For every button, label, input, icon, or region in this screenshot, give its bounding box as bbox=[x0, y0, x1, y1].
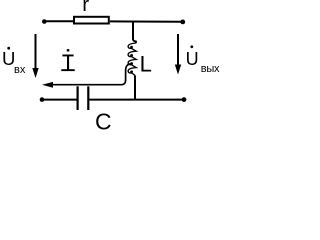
wire bottom-left segment bbox=[42, 99, 77, 101]
wire bottom-right segment bbox=[89, 99, 184, 101]
wire from top to inductor bbox=[133, 22, 136, 44]
svg-text:вых: вых bbox=[201, 63, 220, 75]
label I (current, serif style with dot) bbox=[62, 55, 73, 57]
node top-right bbox=[180, 20, 185, 25]
svg-text:вх: вх bbox=[14, 64, 26, 76]
arrow Uvyx (output voltage, downward) bbox=[177, 34, 179, 65]
arrow Uvx (input voltage, downward) bbox=[35, 34, 37, 69]
wire top-left segment bbox=[44, 20, 74, 22]
svg-text:U: U bbox=[186, 49, 199, 69]
wire top-right segment bbox=[110, 20, 183, 22]
svg-text:r: r bbox=[82, 0, 89, 16]
inductor L coil bbox=[128, 43, 136, 76]
svg-text:L: L bbox=[140, 52, 152, 77]
capacitor C bbox=[76, 86, 78, 110]
svg-text:C: C bbox=[95, 108, 112, 132]
node bottom-right bbox=[182, 97, 187, 102]
resistor r bbox=[74, 17, 109, 24]
wire from inductor to bottom bbox=[134, 76, 136, 100]
arrow I (current, curved, pointing left) bbox=[51, 64, 131, 85]
node bottom-left bbox=[40, 97, 45, 102]
node top-left bbox=[42, 19, 47, 24]
